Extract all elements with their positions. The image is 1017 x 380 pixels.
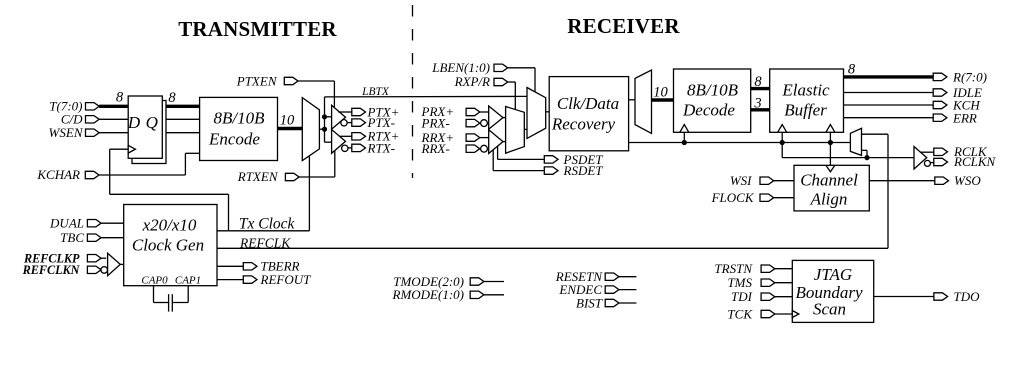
svg-text:8B/10B: 8B/10B (214, 109, 266, 128)
svg-text:RSDET: RSDET (563, 163, 604, 178)
svg-text:WSI: WSI (730, 173, 752, 188)
svg-text:Tx Clock: Tx Clock (239, 216, 296, 233)
svg-text:FLOCK: FLOCK (711, 190, 755, 205)
svg-text:Scan: Scan (813, 300, 846, 319)
svg-text:REFOUT: REFOUT (260, 272, 312, 287)
svg-text:Buffer: Buffer (784, 100, 827, 119)
svg-text:Clock Gen: Clock Gen (132, 236, 204, 255)
svg-text:8: 8 (848, 62, 856, 78)
svg-text:WSO: WSO (954, 173, 981, 188)
svg-text:x20/x10: x20/x10 (142, 216, 197, 235)
svg-text:RTXEN: RTXEN (237, 169, 279, 184)
svg-text:ERR: ERR (952, 110, 977, 125)
svg-text:Channel: Channel (800, 170, 858, 189)
svg-text:BIST: BIST (576, 295, 603, 310)
svg-text:JTAG: JTAG (814, 265, 852, 284)
svg-text:RXP/R: RXP/R (454, 74, 490, 89)
svg-text:CAP1: CAP1 (175, 275, 201, 287)
svg-text:10: 10 (653, 85, 668, 101)
svg-text:TCK: TCK (727, 306, 753, 321)
svg-text:RRX-: RRX- (421, 141, 450, 156)
svg-text:8: 8 (168, 90, 176, 106)
svg-text:3: 3 (753, 96, 761, 112)
svg-text:RECEIVER: RECEIVER (567, 14, 680, 38)
svg-text:8: 8 (116, 90, 124, 106)
svg-text:10: 10 (280, 113, 295, 129)
svg-text:TDO: TDO (954, 289, 981, 304)
svg-text:WSEN: WSEN (49, 125, 84, 140)
svg-text:LBEN(1:0): LBEN(1:0) (431, 60, 490, 75)
svg-text:CAP0: CAP0 (141, 275, 168, 287)
svg-text:RMODE(1:0): RMODE(1:0) (392, 287, 464, 302)
svg-text:REFCLK: REFCLK (239, 236, 291, 251)
svg-text:TBC: TBC (60, 230, 84, 245)
svg-text:Align: Align (810, 190, 848, 209)
svg-text:LBTX: LBTX (361, 86, 390, 98)
svg-text:D: D (127, 113, 141, 132)
svg-text:DUAL: DUAL (49, 215, 84, 230)
svg-text:Elastic: Elastic (781, 80, 830, 99)
svg-text:Clk/Data: Clk/Data (557, 94, 619, 113)
svg-text:RTX-: RTX- (367, 140, 395, 155)
svg-text:Recovery: Recovery (551, 115, 616, 134)
svg-text:TDI: TDI (731, 289, 753, 304)
svg-text:8: 8 (754, 74, 762, 90)
svg-text:TRSTN: TRSTN (714, 261, 753, 276)
svg-text:KCHAR: KCHAR (36, 167, 80, 182)
svg-text:TRANSMITTER: TRANSMITTER (178, 17, 337, 41)
svg-text:Decode: Decode (682, 100, 735, 119)
svg-text:PRX-: PRX- (421, 115, 450, 130)
svg-text:REFCLKN: REFCLKN (22, 263, 81, 277)
svg-text:R(7:0): R(7:0) (952, 70, 987, 85)
svg-text:8B/10B: 8B/10B (687, 80, 739, 99)
svg-text:Q: Q (146, 113, 158, 132)
svg-text:TMS: TMS (727, 275, 752, 290)
svg-text:PTXEN: PTXEN (236, 73, 278, 88)
svg-text:Encode: Encode (208, 130, 260, 149)
svg-text:RCLKN: RCLKN (953, 154, 997, 169)
